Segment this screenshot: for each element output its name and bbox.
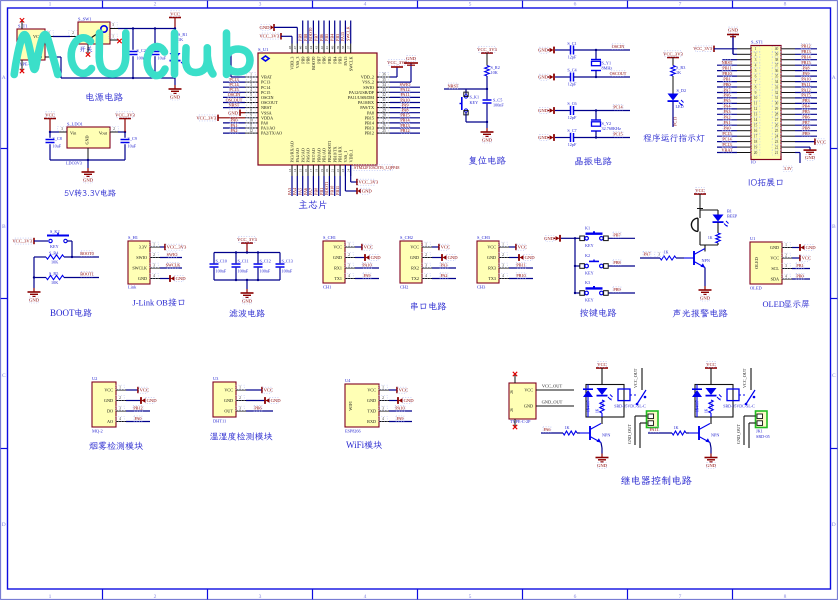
svg-text:PB0/AO: PB0/AO <box>316 148 321 162</box>
header right pin 28 <box>781 113 795 115</box>
U2 DO net PB12 <box>126 410 150 412</box>
CH1 RX net PA10 <box>355 267 379 269</box>
svg-text:12pF: 12pF <box>568 82 577 87</box>
header CH1 body <box>323 241 345 283</box>
svg-text:2: 2 <box>250 78 252 82</box>
svg-text:1: 1 <box>49 594 52 600</box>
header right pin 27 <box>781 119 795 121</box>
svg-text:PA9: PA9 <box>396 416 403 421</box>
svg-text:4: 4 <box>364 1 367 7</box>
svg-text:B: B <box>2 224 6 230</box>
svg-text:PB9: PB9 <box>802 131 809 136</box>
svg-text:LED: LED <box>676 104 684 109</box>
svg-text:46: 46 <box>299 46 303 50</box>
VCC_3V3 power symbol <box>119 118 131 120</box>
MCU top pin PB4 <box>334 44 336 54</box>
svg-text:PA2: PA2 <box>230 128 237 133</box>
wire + rotated net label PC13 <box>672 102 674 128</box>
svg-text:VCC: VCC <box>817 139 826 144</box>
svg-text:33: 33 <box>775 85 779 89</box>
svg-text:VCC: VCC <box>45 112 54 117</box>
regulator S_LDO1 <box>67 127 110 148</box>
U4 GND net <box>389 400 398 402</box>
svg-text:VCC: VCC <box>364 245 373 250</box>
svg-text:1N4007: 1N4007 <box>696 400 700 412</box>
svg-text:13: 13 <box>754 113 758 117</box>
resistor S_R3 <box>671 66 676 77</box>
OLED SCL net PB1 <box>792 268 810 270</box>
title 5V转3.3V电路 <box>65 189 116 197</box>
svg-text:PB8: PB8 <box>306 57 311 64</box>
header right pin 39 <box>781 53 795 55</box>
header right pin 36 <box>781 70 795 72</box>
svg-text:S_D2: S_D2 <box>677 88 687 93</box>
svg-text:33: 33 <box>382 88 386 92</box>
svg-text:3.3V: 3.3V <box>784 166 792 171</box>
wire VCC to LDO Vin <box>50 131 59 133</box>
svg-text:29: 29 <box>382 108 386 112</box>
CH2 GND net <box>432 257 442 259</box>
LED S_D1 <box>174 46 176 53</box>
svg-text:GND: GND <box>271 398 282 403</box>
svg-text:DO: DO <box>107 409 113 414</box>
svg-text:PA6: PA6 <box>723 93 730 98</box>
title 按键电路 <box>580 308 616 317</box>
svg-text:PB6: PB6 <box>322 57 327 64</box>
svg-text:VBAT: VBAT <box>722 147 733 152</box>
MCU right pin PA10/RX <box>377 102 390 104</box>
svg-text:2: 2 <box>239 396 241 400</box>
svg-text:S_ST1: S_ST1 <box>751 40 763 45</box>
svg-text:4: 4 <box>382 417 384 421</box>
svg-text:GND: GND <box>228 110 239 115</box>
svg-text:1: 1 <box>348 243 350 247</box>
svg-text:PA7/AO: PA7/AO <box>311 148 316 162</box>
title 串口电路 <box>411 302 447 311</box>
frame zone ticks and labels <box>102 1 104 8</box>
capacitor S_C8 <box>49 131 51 133</box>
svg-text:PB5: PB5 <box>324 34 329 41</box>
svg-text:PA11: PA11 <box>649 427 658 432</box>
svg-text:BOOT: BOOT <box>50 308 75 318</box>
svg-text:PA3/RX/AO: PA3/RX/AO <box>290 141 295 162</box>
MCU right pin PA8 <box>377 112 390 114</box>
svg-text:GND: GND <box>770 245 779 250</box>
svg-text:2: 2 <box>113 127 115 131</box>
svg-text:10uF: 10uF <box>128 144 137 149</box>
svg-text:VCC: VCC <box>441 245 450 250</box>
svg-text:12: 12 <box>249 129 253 133</box>
svg-text:S_C8: S_C8 <box>53 136 62 141</box>
MCU bottom pin VDD_1 <box>350 165 352 176</box>
svg-text:TX1: TX1 <box>334 276 342 281</box>
svg-text:1N4007: 1N4007 <box>587 400 591 412</box>
svg-text:37: 37 <box>775 64 779 68</box>
MCU left pin 8 VSSA <box>245 112 258 114</box>
svg-text:34: 34 <box>775 80 779 84</box>
svg-text:GND: GND <box>728 28 739 33</box>
svg-text:PB6: PB6 <box>254 406 261 411</box>
svg-text:PC15: PC15 <box>722 131 731 136</box>
svg-text:SWCLK: SWCLK <box>348 57 353 72</box>
svg-text:2: 2 <box>755 53 757 57</box>
svg-text:TYPE-C-2P: TYPE-C-2P <box>510 419 531 424</box>
header left pin 9 <box>737 92 751 94</box>
header right pin 24 <box>781 135 795 137</box>
MCU bottom pin PB2/BOOT1 <box>328 165 330 176</box>
svg-text:RX2: RX2 <box>411 266 419 271</box>
svg-text:26: 26 <box>510 408 514 412</box>
svg-text:TX2: TX2 <box>411 276 419 281</box>
svg-text:S_C12: S_C12 <box>260 259 271 264</box>
svg-text:3: 3 <box>259 594 262 600</box>
svg-text:GND: GND <box>448 255 459 260</box>
svg-text:1K: 1K <box>564 425 569 430</box>
svg-text:JK1: JK1 <box>756 429 763 434</box>
header S_ST1 body <box>751 46 781 160</box>
MCU right pin PB14 <box>377 122 390 124</box>
title 滤波电路 <box>229 309 265 317</box>
alarm bottom rail <box>700 244 718 246</box>
capacitor S_C5 100nF <box>486 89 488 99</box>
svg-text:2: 2 <box>382 396 384 400</box>
svg-text:PA5: PA5 <box>723 98 730 103</box>
svg-text:4: 4 <box>425 274 427 278</box>
svg-text:11: 11 <box>754 102 758 106</box>
svg-text:2: 2 <box>72 31 74 35</box>
svg-text:27: 27 <box>382 119 386 123</box>
svg-text:PC15: PC15 <box>613 132 622 137</box>
GND tap for S_C1 <box>550 48 554 52</box>
net label PB8 + wire <box>609 265 636 267</box>
svg-text:30: 30 <box>382 103 386 107</box>
svg-text:SWCLK: SWCLK <box>132 266 147 271</box>
svg-text:GND: GND <box>29 298 40 303</box>
CH3 RX net PB11 <box>509 267 533 269</box>
relay switch blade + contacts <box>746 390 755 404</box>
MCU left pin 3 PC14 <box>245 86 258 88</box>
svg-text:VCC: VCC <box>170 11 179 16</box>
CH1 GND net <box>355 257 365 259</box>
svg-text:40: 40 <box>775 47 779 51</box>
svg-text:VCC_3V3: VCC_3V3 <box>693 46 713 51</box>
svg-text:26: 26 <box>510 390 514 394</box>
MCU right pin SWIO <box>377 86 390 88</box>
svg-text:PA12: PA12 <box>801 87 810 92</box>
MCU left pin 9 VDDA <box>245 117 258 119</box>
svg-text:12pF: 12pF <box>568 115 577 120</box>
svg-text:PB11: PB11 <box>335 186 340 195</box>
capacitor S_C11 100nF <box>235 253 237 264</box>
U3 VCC net <box>246 389 262 391</box>
svg-text:PB0: PB0 <box>723 82 730 87</box>
MCU right pin VDD_2 <box>377 76 390 78</box>
MCU top pin BOOT0 <box>312 44 314 54</box>
relay LED <box>597 388 608 395</box>
svg-text:4: 4 <box>502 274 504 278</box>
svg-text:STM32F103C8T6_LQFP48: STM32F103C8T6_LQFP48 <box>354 165 399 170</box>
relay switch blade + contacts <box>637 390 646 404</box>
svg-text:3: 3 <box>502 264 504 268</box>
svg-text:1: 1 <box>755 47 757 51</box>
MCU top pin VDD_3 <box>291 44 293 54</box>
svg-text:C: C <box>2 373 6 379</box>
svg-text:D: D <box>2 522 6 528</box>
reset bottom wire + ground <box>466 121 487 123</box>
svg-text:2: 2 <box>502 253 504 257</box>
header S_H1 J-Link <box>128 241 150 284</box>
module U2 MQ-2 body <box>92 382 116 427</box>
svg-text:PB1: PB1 <box>319 188 324 195</box>
svg-text:VSS_3: VSS_3 <box>295 57 300 69</box>
CH1 VCC net <box>355 246 362 248</box>
svg-text:KEY: KEY <box>50 244 59 249</box>
svg-text:45: 45 <box>304 46 308 50</box>
svg-text:PB3: PB3 <box>802 98 809 103</box>
svg-text:15: 15 <box>299 169 303 173</box>
svg-text:Vin: Vin <box>70 131 77 136</box>
CH3 VCC net <box>509 246 516 248</box>
title 主芯片 <box>299 200 327 209</box>
svg-text:BOOT1: BOOT1 <box>80 272 94 277</box>
svg-text:7: 7 <box>679 594 682 600</box>
svg-text:3: 3 <box>112 23 114 27</box>
svg-text:PB1/AO: PB1/AO <box>322 148 327 162</box>
VCC symbol relay PA11 <box>705 367 717 369</box>
T1 top no-connect pin <box>21 21 23 29</box>
svg-text:PB4: PB4 <box>802 104 810 109</box>
svg-text:3: 3 <box>785 264 787 268</box>
svg-text:BOOT0: BOOT0 <box>311 57 316 71</box>
svg-text:KEY: KEY <box>585 271 594 276</box>
svg-text:GND: GND <box>706 463 717 468</box>
svg-text:NRST: NRST <box>229 102 240 107</box>
ground of power circuit <box>174 78 176 85</box>
svg-text:2: 2 <box>119 396 121 400</box>
svg-text:VCC_3V3: VCC_3V3 <box>359 180 379 185</box>
svg-text:7: 7 <box>250 103 252 107</box>
svg-text:PA10: PA10 <box>801 76 810 81</box>
svg-text:3: 3 <box>239 407 241 411</box>
svg-text:4: 4 <box>785 275 787 279</box>
svg-text:IO: IO <box>751 160 756 165</box>
svg-text:PA15: PA15 <box>343 57 348 66</box>
svg-text:MQ-2: MQ-2 <box>92 429 103 434</box>
svg-text:BOOT1: BOOT1 <box>324 182 329 196</box>
svg-text:GND: GND <box>538 75 549 80</box>
svg-text:GND: GND <box>597 463 608 468</box>
svg-text:GND: GND <box>525 255 536 260</box>
svg-text:NPN: NPN <box>602 433 610 438</box>
header right pin 34 <box>781 81 795 83</box>
svg-text:3.3V: 3.3V <box>139 245 147 250</box>
svg-text:WiFi: WiFi <box>346 440 365 450</box>
svg-text:VCC: VCC <box>140 388 149 393</box>
header left pin 11 <box>737 102 751 104</box>
net label PC14 <box>613 104 623 110</box>
header right pin 30 <box>781 102 795 104</box>
svg-text:6: 6 <box>755 74 757 78</box>
svg-text:VCC: VCC <box>524 388 533 393</box>
header left pin 13 <box>737 113 751 115</box>
VCC_OUT riser <box>641 368 643 390</box>
title IO拓展口 <box>749 178 783 186</box>
svg-text:1: 1 <box>382 386 384 390</box>
svg-text:PA6: PA6 <box>543 427 550 432</box>
svg-text:32: 32 <box>382 93 386 97</box>
svg-text:VCC: VCC <box>399 388 408 393</box>
svg-text:38: 38 <box>341 46 345 50</box>
svg-text:10uF: 10uF <box>53 144 62 149</box>
svg-text:OSCIN: OSCIN <box>612 44 625 49</box>
header right pin 31 <box>781 97 795 99</box>
svg-text:VCC: VCC <box>770 256 779 261</box>
svg-text:PB0: PB0 <box>314 188 319 195</box>
svg-text:GND: GND <box>524 404 533 409</box>
MCU left pin 6 OSCOUT <box>245 102 258 104</box>
alarm LED resistor <box>717 223 719 234</box>
svg-text:1: 1 <box>112 35 114 39</box>
svg-text:1: 1 <box>119 386 121 390</box>
svg-text:OSCOUT: OSCOUT <box>610 71 627 76</box>
svg-text:BOOT0: BOOT0 <box>80 251 94 256</box>
svg-text:A: A <box>832 75 836 81</box>
relay coil <box>727 389 739 401</box>
svg-text:LDO3V3: LDO3V3 <box>66 161 82 166</box>
LDO bottom rail <box>50 159 125 161</box>
svg-text:PB5: PB5 <box>802 109 809 114</box>
svg-text:VCC: VCC <box>706 362 715 367</box>
MCU bottom pin PA5/AO <box>302 165 304 176</box>
svg-text:VCC: VCC <box>367 388 376 393</box>
MCU designator diamond icon <box>262 56 269 61</box>
OLED VCC net <box>792 257 800 259</box>
wire LDO Vout <box>110 131 118 133</box>
net label OSCOUT <box>611 71 625 77</box>
svg-text:GND: GND <box>371 255 382 260</box>
svg-text:3: 3 <box>348 264 350 268</box>
VCC_3V3 symbol filter <box>241 242 253 244</box>
svg-text:SRD-05VDC-SL-C: SRD-05VDC-SL-C <box>723 404 755 409</box>
svg-text:S_CH1: S_CH1 <box>323 235 336 240</box>
connector wires + GND_OUT <box>635 415 647 417</box>
header right pin 21 <box>781 152 795 154</box>
svg-text:VCC: VCC <box>597 362 606 367</box>
svg-text:16: 16 <box>304 169 308 173</box>
svg-text:22: 22 <box>336 169 340 173</box>
svg-text:4: 4 <box>153 274 155 278</box>
svg-text:NRST: NRST <box>448 83 459 88</box>
svg-text:1: 1 <box>502 243 504 247</box>
base resistor 1K <box>660 256 676 260</box>
svg-text:PB7: PB7 <box>314 34 319 41</box>
GND tap for S_C7 <box>550 135 554 139</box>
svg-text:GND: GND <box>85 135 90 144</box>
svg-text:K3: K3 <box>585 280 590 285</box>
svg-text:10K: 10K <box>491 70 498 75</box>
svg-text:S_K1: S_K1 <box>470 95 480 100</box>
filter top rail <box>214 252 280 254</box>
net label PA6 <box>541 432 563 434</box>
svg-text:20: 20 <box>325 169 329 173</box>
svg-text:DHT11: DHT11 <box>213 419 226 424</box>
svg-text:PC13: PC13 <box>673 117 678 126</box>
LDO ground <box>87 160 89 168</box>
GND tap for S_C6 <box>550 108 554 112</box>
svg-text:9: 9 <box>250 114 252 118</box>
alarm top rail <box>700 209 718 211</box>
svg-text:B: B <box>832 224 836 230</box>
MCU left pin 7 NRST <box>245 107 258 109</box>
U2 GND net <box>126 400 141 402</box>
VCC_3V3 symbol reset <box>481 52 493 54</box>
svg-text:37: 37 <box>347 46 351 50</box>
MCU top VSS_3 to GND <box>273 24 275 31</box>
svg-text:7: 7 <box>679 1 682 7</box>
MCU left pin 2 PC13 <box>245 81 258 83</box>
svg-text:KEY: KEY <box>585 243 594 248</box>
buzzer B1 BEEP <box>699 210 701 218</box>
header right pin 25 <box>781 130 795 132</box>
svg-text:NRST: NRST <box>722 60 733 65</box>
svg-text:VCC_3V3: VCC_3V3 <box>477 47 497 52</box>
svg-text:VCC: VCC <box>802 256 811 261</box>
svg-text:VCC: VCC <box>224 388 233 393</box>
svg-text:SDA: SDA <box>771 277 779 282</box>
svg-text:23: 23 <box>341 169 345 173</box>
output connector (green) <box>647 411 659 428</box>
svg-text:14: 14 <box>754 118 758 122</box>
svg-text:VCC_3V3: VCC_3V3 <box>115 112 135 117</box>
svg-text:PA9: PA9 <box>363 273 370 278</box>
capacitor S_C6 12pF <box>555 110 571 112</box>
title 继电器控制电路 <box>621 476 692 486</box>
svg-text:PA6: PA6 <box>303 188 308 195</box>
svg-text:26: 26 <box>382 124 386 128</box>
U4 RXD net PA9 <box>389 421 412 423</box>
svg-text:3: 3 <box>153 264 155 268</box>
MCU top pin PA15 <box>344 44 346 54</box>
svg-text:100nF: 100nF <box>216 269 227 274</box>
svg-text:U1: U1 <box>750 236 755 241</box>
key K3 <box>575 292 580 294</box>
J-Link SWCLK net <box>160 267 182 269</box>
header right pin 40 <box>781 48 795 50</box>
base resistor 1K <box>563 431 577 435</box>
VCC symbol alarm <box>694 193 706 195</box>
svg-text:34: 34 <box>382 83 386 87</box>
svg-text:PA2/TX/AO: PA2/TX/AO <box>261 131 282 136</box>
header right pin 29 <box>781 108 795 110</box>
svg-text:GND: GND <box>83 178 94 183</box>
relay component box <box>695 385 733 418</box>
svg-text:18: 18 <box>315 169 319 173</box>
title 声光报警电路 <box>673 309 728 318</box>
svg-text:GND: GND <box>805 155 816 160</box>
svg-text:PB7: PB7 <box>802 120 809 125</box>
transistor NPN relay <box>698 426 700 440</box>
svg-text:27: 27 <box>775 118 779 122</box>
svg-text:AO: AO <box>107 419 113 424</box>
T2 top no-connect <box>514 375 516 383</box>
MCU right pin PA9/TX <box>377 107 390 109</box>
svg-text:PB15: PB15 <box>801 60 810 65</box>
capacitor S_C10 100nF <box>213 253 215 264</box>
svg-text:100nF: 100nF <box>260 269 271 274</box>
svg-text:PB3: PB3 <box>338 57 343 64</box>
transistor NPN relay <box>589 426 591 440</box>
svg-text:GND: GND <box>487 255 496 260</box>
